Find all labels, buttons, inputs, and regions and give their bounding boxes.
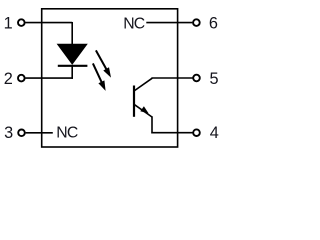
package outline U1 (42, 9, 178, 147)
wire pin3 NC stub (26, 132, 53, 134)
LED D1 cathode bar (58, 65, 88, 67)
svg-text:NC: NC (56, 125, 78, 142)
wire NC to pin 6 (146, 22, 192, 24)
pin 6 terminal circle (193, 19, 200, 26)
light arrow upper (96, 50, 111, 77)
pin 1 terminal circle (18, 19, 25, 26)
wire anode vertical (71, 22, 73, 45)
svg-text:4: 4 (210, 124, 219, 142)
wire cathode to pin 2 (25, 77, 73, 79)
pin 3 terminal circle (18, 130, 25, 137)
svg-text:2: 2 (4, 70, 13, 88)
pin 5 terminal circle (193, 75, 200, 82)
wire pin1 to anode corner (25, 22, 72, 24)
Q1 collector lead (134, 78, 152, 91)
wire cathode vertical (71, 66, 73, 79)
phototransistor Q1 base bar (133, 86, 135, 117)
wire emitter vertical (151, 116, 153, 133)
Q1 emitter lead with arrow (134, 104, 152, 117)
wire emitter to pin 4 (151, 132, 192, 134)
pin 2 terminal circle (18, 75, 25, 82)
svg-text:6: 6 (209, 15, 218, 33)
svg-text:3: 3 (4, 124, 13, 142)
light arrow lower (93, 63, 106, 91)
pin 4 terminal circle (193, 129, 200, 136)
wire collector to pin 5 (151, 77, 192, 79)
svg-text:1: 1 (4, 15, 13, 33)
svg-text:NC: NC (123, 15, 145, 32)
svg-text:5: 5 (209, 70, 218, 88)
LED D1 triangle (anode) (57, 44, 87, 64)
